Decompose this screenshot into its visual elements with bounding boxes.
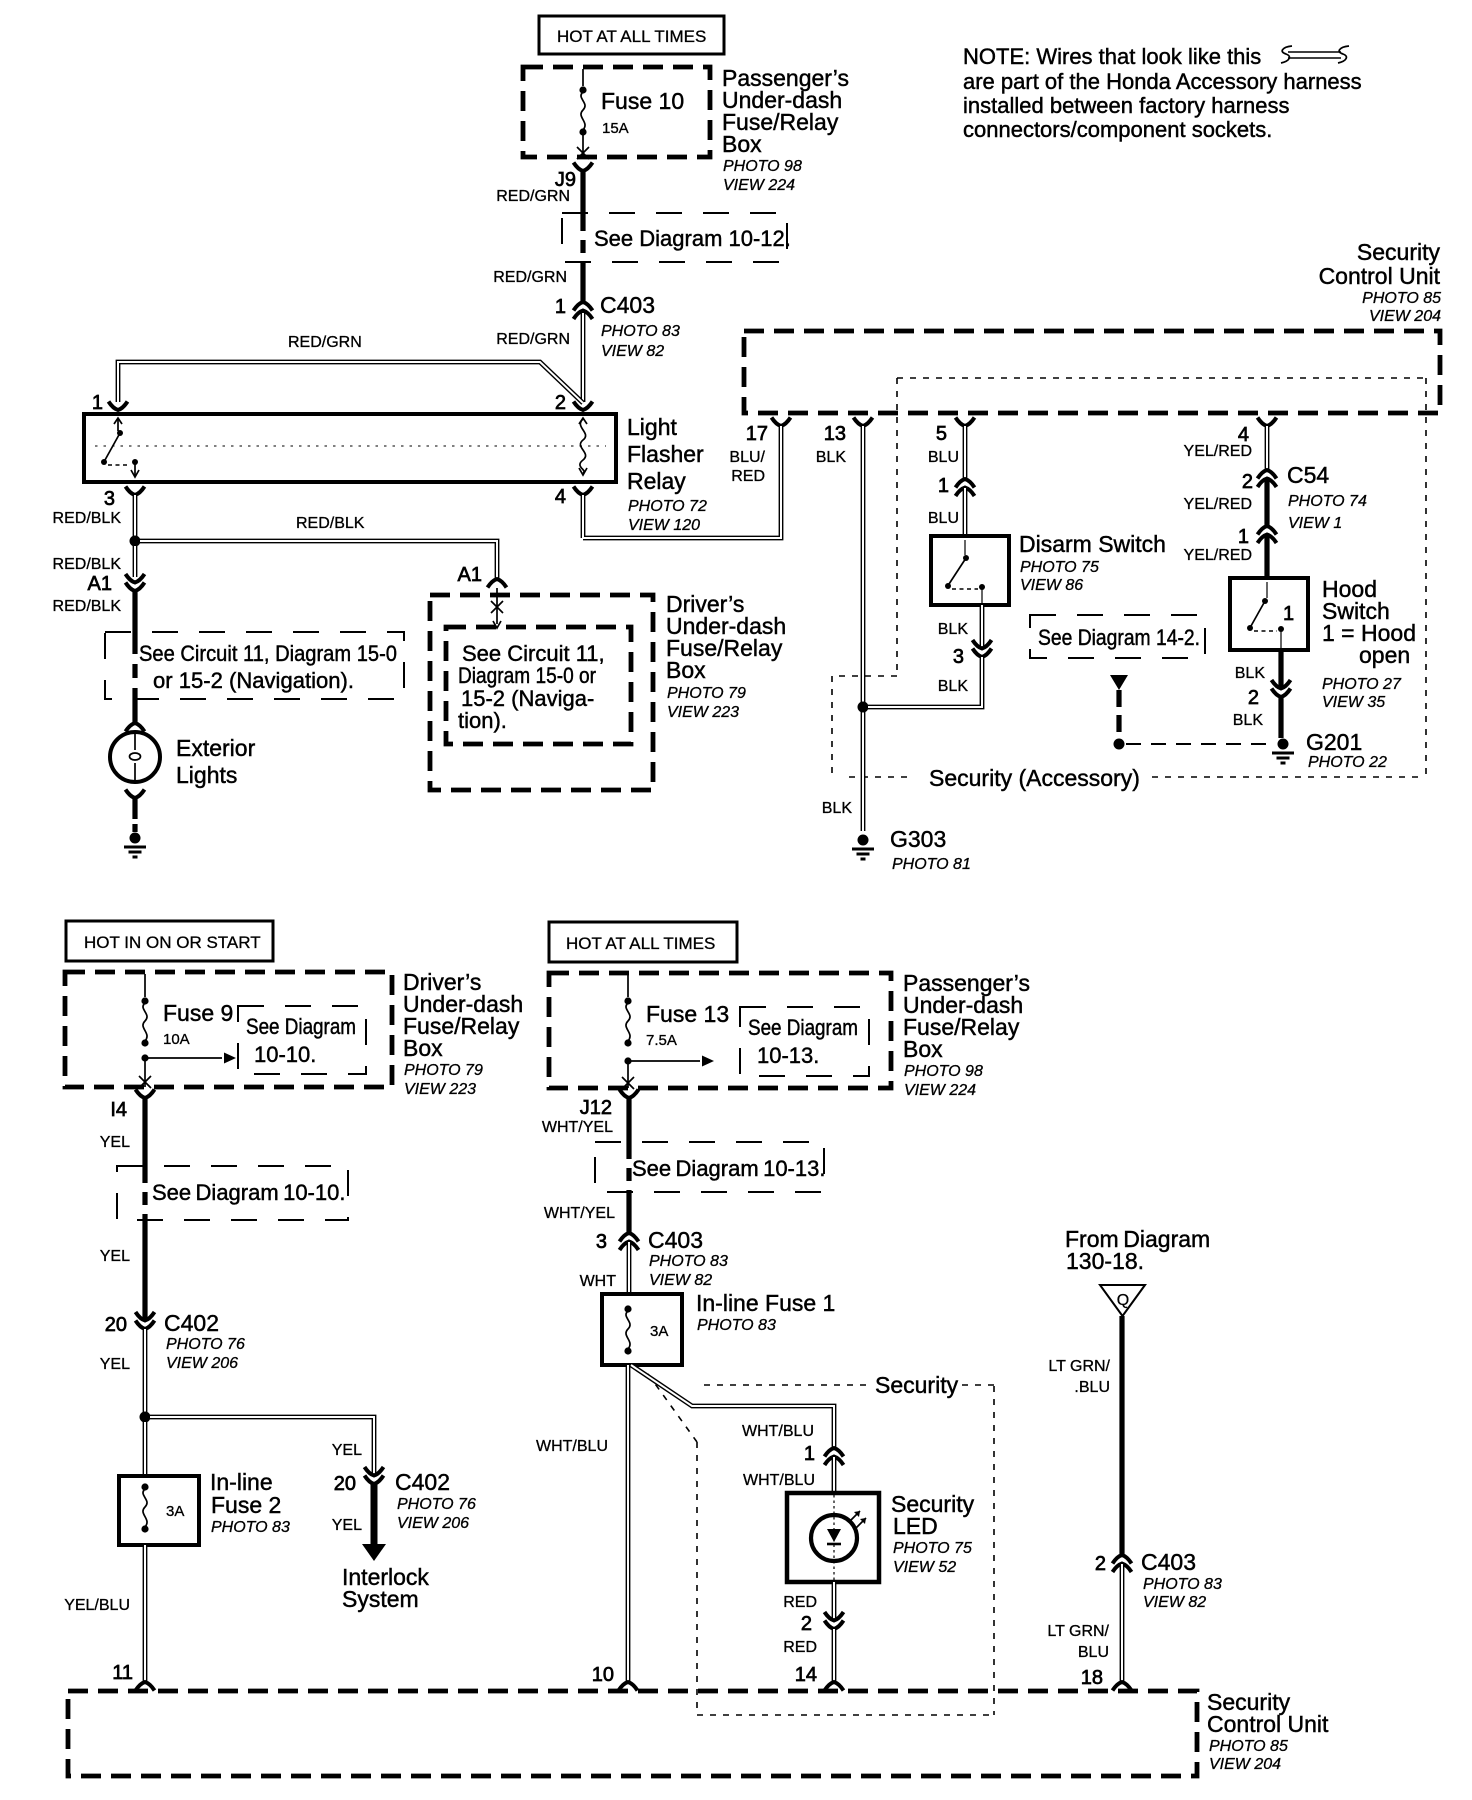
wire connector to disarm switch (double) [963,488,968,536]
connector C403 pin 3 PHOTO 83 VIEW 82 [596,1227,728,1289]
bulb socket connector (top) [126,723,145,732]
label Security Control Unit PHOTO 85 VIEW 204 (top right) [1319,239,1442,325]
svg-text:PHOTO 83: PHOTO 83 [1143,1576,1222,1593]
svg-text:RED/GRN: RED/GRN [496,188,570,205]
wire I4 YEL (thick) [142,1098,147,1170]
svg-text:VIEW 224: VIEW 224 [723,177,795,194]
svg-text:20: 20 [105,1314,127,1336]
power tag HOT AT ALL TIMES (top) [539,16,724,54]
svg-text:2: 2 [1095,1553,1106,1575]
svg-text:BLK: BLK [816,449,847,466]
svg-text:VIEW 86: VIEW 86 [1020,577,1083,594]
svg-text:YEL/RED: YEL/RED [1184,547,1252,564]
svg-text:YEL: YEL [100,1134,130,1151]
svg-text:WHT/YEL: WHT/YEL [544,1205,615,1222]
connector J12 [580,1090,639,1120]
bulb socket connector (bottom) [126,790,145,799]
svg-text:installed between factory harn: installed between factory harness [963,93,1290,118]
svg-text:VIEW 52: VIEW 52 [893,1559,956,1576]
svg-text:5: 5 [936,423,947,445]
svg-text:Disarm Switch: Disarm Switch [1019,531,1166,557]
svg-text:7.5A: 7.5A [646,1032,677,1049]
svg-text:RED: RED [731,468,765,485]
svg-text:BLU: BLU [928,510,959,527]
wire connector to LED (double) [832,1457,837,1493]
svg-text:J12: J12 [580,1097,612,1119]
svg-text:YEL: YEL [332,1442,362,1459]
wire C54 to connector 1 (thick) [1264,479,1269,526]
svg-text:Flasher: Flasher [627,441,704,467]
fuse Fuse 13 7.5A [624,997,729,1049]
svg-text:BLK: BLK [1235,665,1266,682]
label Security LED PHOTO 75 VIEW 52 [891,1491,975,1576]
svg-text:PHOTO 76: PHOTO 76 [397,1496,476,1513]
wire LED to connector 2 (double) [832,1582,837,1620]
wire to C403 (thick) [580,262,585,302]
wire fuse 1 to pin 10 (double) [626,1365,631,1682]
svg-text:C403: C403 [648,1227,703,1253]
dotted region Security (Accessory) boundary [832,378,1427,777]
label Driver's Under-dash Fuse/Relay Box PHOTO 79 VIEW 223 [403,969,523,1098]
svg-text:2: 2 [1248,687,1259,709]
border cross at exit [622,1077,634,1089]
connector 1 (disarm switch) [938,475,975,497]
svg-text:PHOTO 83: PHOTO 83 [601,323,680,340]
svg-text:PHOTO 79: PHOTO 79 [404,1062,483,1079]
connector A1 (left) [88,573,145,595]
svg-text:In-line Fuse 1: In-line Fuse 1 [696,1290,835,1316]
svg-text:PHOTO 75: PHOTO 75 [1020,559,1099,576]
wire pin17 to relay pin4 (double) [583,426,781,538]
relay coil (pins 2-4) [579,418,587,475]
svg-text:VIEW 204: VIEW 204 [1369,308,1441,325]
wire YEL branch to C402 pin 20 (double) [150,1417,374,1475]
svg-text:1: 1 [938,475,949,497]
svg-text:See Diagram 14-2.: See Diagram 14-2. [1038,625,1200,650]
dotted region Security boundary [648,1374,994,1715]
arrow fuse9 to see-diagram box [145,1053,236,1064]
wire pin5 to connector (double) [963,426,968,479]
fuse Fuse 9 10A [141,997,233,1048]
wire J9 RED/GRN (thick) [580,171,585,218]
svg-text:A1: A1 [458,564,482,586]
svg-text:3: 3 [104,488,115,510]
SCU pin 5 [936,418,975,446]
svg-text:10: 10 [592,1664,614,1686]
ground G201 PHOTO 22 [1272,729,1387,771]
wire relay pin3 to junction (double) [133,495,138,536]
LED Security LED box PHOTO 75 VIEW 52 [787,1493,879,1582]
junction node (RED/BLK split) [130,536,141,547]
power tag HOT AT ALL TIMES (lower) [549,922,737,962]
svg-text:PHOTO 85: PHOTO 85 [1362,290,1441,307]
svg-text:VIEW 206: VIEW 206 [397,1515,469,1532]
wire dashed through note box [626,1146,631,1190]
wire disarm to connector 3 (double) [980,605,985,648]
svg-text:LT GRN/: LT GRN/ [1047,1623,1109,1640]
SCU pin 14 [795,1664,844,1691]
svg-text:2: 2 [555,392,566,414]
svg-text:Relay: Relay [627,468,686,494]
note box See Diagram 14-2. [1030,615,1205,658]
Passenger's Under-dash Fuse/Relay Box (dashed, lower) [549,973,891,1088]
wire hood switch to connector 2 (thick) [1278,650,1283,688]
wire to bulb (thick) [132,698,137,723]
wire C403 to in-line fuse 1 (double) [627,1242,632,1294]
arrow fuse13 to see-diagram box [628,1056,714,1067]
svg-text:VIEW 206: VIEW 206 [166,1355,238,1372]
label LT GRN/BLU (lower) [1047,1623,1109,1661]
connector C402 pin 20 (branch) PHOTO 76 VIEW 206 [334,1467,476,1532]
wire to C402 (thick) [142,1218,147,1320]
SCU pin 18 [1081,1667,1132,1691]
svg-text:PHOTO 83: PHOTO 83 [211,1519,290,1536]
relay pin 3 [104,487,145,511]
svg-text:VIEW 120: VIEW 120 [628,517,700,534]
svg-text:Q: Q [1117,1292,1129,1309]
note box See Diagram 10-12 [562,213,791,262]
svg-text:PHOTO 72: PHOTO 72 [628,498,707,515]
wire RED/BLK branch to driver's box (double) [140,541,497,578]
fuse Fuse 10 15A [579,86,684,137]
svg-text:Fuse 2: Fuse 2 [211,1492,281,1518]
wire dashed through note box [132,640,137,698]
connector C402 pin 20 PHOTO 76 VIEW 206 [105,1310,245,1372]
fuse branch node [624,1057,631,1064]
svg-text:1: 1 [1283,603,1294,625]
relay pin 4 [555,486,593,508]
harness wire symbol in note [1281,46,1349,63]
label Security Control Unit PHOTO 85 VIEW 204 (bottom) [1207,1689,1329,1773]
switch Hood Switch box [1230,578,1308,650]
connector 2 (security LED) [801,1612,844,1635]
wire RED/GRN loop relay pin1 to pin2 (double) [118,362,583,403]
svg-text:Box: Box [722,131,762,157]
fuse branch node [141,1054,148,1061]
svg-text:PHOTO 83: PHOTO 83 [649,1253,728,1270]
wire (dashed through note box) [580,218,585,262]
connector I4 [110,1090,154,1122]
svg-text:WHT/BLU: WHT/BLU [536,1438,608,1455]
svg-text:10A: 10A [163,1031,190,1048]
Driver's Under-dash Fuse/Relay Box (dashed) [430,595,653,790]
svg-text:10-10.: 10-10. [254,1042,316,1067]
svg-text:RED/GRN: RED/GRN [288,334,362,351]
svg-text:Box: Box [903,1036,943,1062]
svg-text:RED/GRN: RED/GRN [496,331,570,348]
svg-text:PHOTO 79: PHOTO 79 [667,685,746,702]
note box See Diagram 10-13. [595,1142,825,1192]
SCU pin 11 [112,1662,154,1691]
svg-text:connectors/component sockets.: connectors/component sockets. [963,117,1272,142]
svg-text:Fuse 9: Fuse 9 [163,1000,233,1026]
ECU Security Control Unit box (dashed) [744,331,1440,413]
SCU pin 10 [592,1664,638,1691]
svg-text:Box: Box [403,1035,443,1061]
svg-text:C54: C54 [1287,462,1329,488]
svg-text:BLU/: BLU/ [729,449,765,466]
svg-text:WHT/BLU: WHT/BLU [742,1423,814,1440]
svg-text:3: 3 [953,646,964,668]
connector 3 (disarm switch) [953,640,992,668]
svg-text:2: 2 [1242,471,1253,493]
svg-text:HOT AT ALL TIMES: HOT AT ALL TIMES [566,934,715,953]
svg-text:130-18.: 130-18. [1066,1248,1144,1274]
svg-text:3: 3 [596,1231,607,1253]
svg-text:LT GRN/: LT GRN/ [1048,1358,1110,1375]
svg-text:VIEW 204: VIEW 204 [1209,1756,1281,1773]
wire dashed through note box [142,1170,147,1218]
svg-text:Light: Light [627,414,677,440]
svg-text:PHOTO 27: PHOTO 27 [1322,676,1402,693]
wire C403 to pin 18 (double) [1120,1564,1125,1682]
wire connector 2 to pin 14 (double) [832,1629,837,1682]
svg-text:PHOTO 74: PHOTO 74 [1288,493,1367,510]
junction node (YEL split) [140,1412,151,1423]
svg-text:See Diagram 10-12.: See Diagram 10-12. [594,226,791,251]
svg-text:18: 18 [1081,1667,1103,1689]
border cross at exit [139,1076,151,1088]
connector C54 pin 2 PHOTO 74 VIEW 1 [1242,462,1367,532]
svg-text:VIEW 1: VIEW 1 [1288,515,1342,532]
svg-text:3A: 3A [650,1323,668,1340]
label Passenger's Under-dash Fuse/Relay Box PHOTO 98 VIEW 224 [722,65,849,194]
off-page connector Q [1100,1285,1145,1316]
wire pin13 to G303 (double) [861,426,866,831]
wire C402 to junction (double) [143,1329,148,1412]
arrow to Interlock System [342,1484,429,1612]
SCU pin 13 [824,418,873,446]
svg-text:1: 1 [1238,526,1249,548]
svg-text:C402: C402 [395,1469,450,1495]
label From Diagram 130-18. [1065,1226,1210,1274]
svg-text:PHOTO 76: PHOTO 76 [166,1336,245,1353]
svg-text:RED/BLK: RED/BLK [53,598,122,615]
svg-text:C403: C403 [1141,1549,1196,1575]
svg-text:4: 4 [555,486,566,508]
label Hood Switch 1 = Hood open PHOTO 27 VIEW 35 [1322,576,1416,711]
svg-text:BLK: BLK [822,800,853,817]
svg-text:See Diagram: See Diagram [748,1015,858,1040]
relay switch contact (pins 1-3) [101,418,139,477]
wire to C403 (thick) [626,1190,631,1233]
svg-text:BLK: BLK [938,678,969,695]
switch Disarm Switch box [931,536,1009,605]
svg-text:LED: LED [893,1513,938,1539]
label LT GRN/BLU [1048,1358,1110,1396]
wire connector to hood switch (thick) [1264,535,1269,578]
svg-text:System: System [342,1586,419,1612]
svg-text:1: 1 [92,392,103,414]
svg-text:See Diagram 10-13.: See Diagram 10-13. [632,1156,825,1181]
svg-text:Security (Accessory): Security (Accessory) [929,765,1140,791]
note box See Circuit 11, Diagram 15-0 or 15-2 (Navigation). (inner) [446,627,631,744]
svg-text:15A: 15A [602,120,629,137]
svg-text:.BLU: .BLU [1074,1379,1110,1396]
note box See Circuit 11, Diagram 15-0 or 15-2 (Navigation). [105,632,404,699]
svg-text:Security: Security [875,1372,959,1398]
wire connector 2 to G201 (thick) [1278,697,1283,738]
svg-text:VIEW 224: VIEW 224 [904,1082,976,1099]
svg-text:NOTE: Wires that look like thi: NOTE: Wires that look like this [963,44,1261,69]
svg-text:BLK: BLK [1233,712,1264,729]
label BLU/RED [729,449,765,485]
wire fuse9 to box edge [144,1058,146,1087]
connector C403 pin 1 [555,292,680,360]
relay pin 2 [555,392,593,414]
svg-text:PHOTO 98: PHOTO 98 [904,1063,983,1080]
svg-text:Control Unit: Control Unit [1319,263,1441,289]
svg-text:RED/BLK: RED/BLK [53,556,122,573]
svg-text:RED: RED [783,1639,817,1656]
svg-text:are part of the Honda Accessor: are part of the Honda Accessory harness [963,69,1362,94]
label Passenger's Under-dash Fuse/Relay Box PHOTO 98 VIEW 224 [903,970,1030,1099]
relay K1 Light Flasher Relay box [84,414,616,482]
ground G (exterior lights) [124,833,146,858]
svg-text:1: 1 [804,1443,815,1465]
svg-text:BLU: BLU [928,449,959,466]
svg-text:WHT/BLU: WHT/BLU [743,1472,815,1489]
svg-text:1: 1 [555,296,566,318]
border cross at fuse box exit [577,147,589,159]
wire J12 WHT/YEL (thick) [626,1098,631,1146]
svg-text:PHOTO 81: PHOTO 81 [892,856,971,873]
connector 1 (security LED) [804,1443,844,1465]
dashed link wire (see diagram 14-2 to ground net) [1110,675,1276,750]
svg-text:WHT: WHT [580,1273,617,1290]
wire junction to in-line fuse 2 (double) [143,1422,148,1476]
connector 2 (hood switch) [1248,680,1291,709]
svg-text:Diagram 15-0 or: Diagram 15-0 or [458,663,596,688]
fuse F13 feed wire [627,975,629,997]
svg-text:Lights: Lights [176,762,237,788]
svg-text:VIEW 82: VIEW 82 [1143,1594,1206,1611]
connector A1 (driver's box branch) [458,564,507,588]
label Disarm Switch PHOTO 75 VIEW 86 [1019,531,1166,594]
svg-text:Security: Security [1357,239,1441,265]
wire A1 to exterior lights (thick) [132,591,137,640]
wire fuse13 to box edge [627,1061,629,1088]
connector C403 pin 2 PHOTO 83 VIEW 82 [1095,1549,1222,1611]
svg-text:PHOTO 98: PHOTO 98 [723,158,802,175]
svg-text:Fuse 10: Fuse 10 [601,88,684,114]
svg-text:VIEW 223: VIEW 223 [404,1081,476,1098]
svg-text:YEL/BLU: YEL/BLU [64,1597,130,1614]
svg-text:11: 11 [112,1662,133,1684]
wire connector 3 to BLK junction (double) [868,657,982,707]
fuse F9 feed wire [144,974,146,997]
svg-text:See Circuit 11, Diagram 15-0: See Circuit 11, Diagram 15-0 [139,641,397,666]
svg-text:YEL/RED: YEL/RED [1184,496,1252,513]
ground G303 PHOTO 81 [852,826,971,873]
svg-text:Control Unit: Control Unit [1207,1711,1329,1737]
svg-text:Exterior: Exterior [176,735,256,761]
svg-text:YEL: YEL [100,1356,130,1373]
svg-text:See Diagram 10-10.: See Diagram 10-10. [152,1180,345,1205]
svg-text:3A: 3A [166,1503,184,1520]
svg-text:Box: Box [666,657,706,683]
wire fuse10 to box edge [582,132,584,157]
svg-text:or 15-2 (Navigation).: or 15-2 (Navigation). [153,668,354,693]
fuse In-line Fuse 2 3A PHOTO 83 [119,1469,290,1545]
label BLU/RED (relay side) [0,0,1,1]
ECU Security Control Unit box (dashed, bottom) [68,1691,1197,1776]
svg-text:10-13.: 10-13. [757,1043,819,1068]
svg-text:YEL: YEL [100,1248,130,1265]
svg-text:YEL/RED: YEL/RED [1184,443,1252,460]
svg-text:G303: G303 [890,826,946,852]
lamp Exterior Lights [110,732,256,788]
Driver's Under-dash Fuse/Relay Box (dashed, lower) [65,972,392,1087]
svg-text:WHT/YEL: WHT/YEL [542,1119,613,1136]
note box See Diagram 10-10. (inner) [238,1006,366,1074]
wire stub into driver's box [491,588,503,628]
NOTE paragraph [963,44,1362,142]
svg-text:PHOTO 22: PHOTO 22 [1308,754,1387,771]
Passenger's Under-dash Fuse/Relay Box (top, dashed) [523,67,710,157]
svg-text:RED/GRN: RED/GRN [493,269,567,286]
svg-text:2: 2 [801,1613,812,1635]
wire bulb to ground (thick) [132,798,137,832]
svg-text:RED/BLK: RED/BLK [53,510,122,527]
fuse F10 feed wire [582,69,584,86]
svg-text:Fuse 13: Fuse 13 [646,1001,729,1027]
wire pin4 to C54 (double) [1265,426,1270,470]
svg-text:I4: I4 [110,1099,127,1121]
svg-text:RED: RED [783,1594,817,1611]
svg-text:BLU: BLU [1078,1644,1109,1661]
wire C403 to relay pin 2 (double) [581,311,586,402]
wire fuse 2 to pin 11 (double) [143,1545,148,1682]
svg-text:C403: C403 [600,292,655,318]
svg-text:13: 13 [824,423,846,445]
svg-text:17: 17 [746,423,768,445]
svg-text:VIEW 223: VIEW 223 [667,704,739,721]
fuse In-line Fuse 1 3A PHOTO 83 [602,1290,835,1365]
note box See Diagram 10-13. (inner) [740,1007,869,1076]
label Light Flasher Relay PHOTO 72 VIEW 120 [627,414,707,534]
svg-text:C402: C402 [164,1310,219,1336]
svg-text:open: open [1359,642,1410,668]
svg-text:14: 14 [795,1664,817,1686]
note box See Diagram 10-10. [117,1166,348,1220]
SCU pin 17 [746,418,791,446]
svg-text:VIEW 82: VIEW 82 [601,343,664,360]
label Driver's Under-dash Fuse/Relay Box PHOTO 79 VIEW 223 [666,591,786,721]
svg-text:PHOTO 75: PHOTO 75 [893,1540,972,1557]
svg-text:YEL: YEL [332,1517,362,1534]
connector J9 [555,163,593,192]
svg-text:BLK: BLK [938,621,969,638]
wire branch fuse 1 to security LED (double) [631,1365,834,1448]
svg-text:tion).: tion). [458,708,507,733]
svg-text:RED/BLK: RED/BLK [296,515,365,532]
SCU pin 4 [1238,418,1277,447]
wire junction to A1 connector (double) [133,546,138,577]
svg-text:VIEW 35: VIEW 35 [1322,694,1385,711]
svg-text:HOT IN ON OR START: HOT IN ON OR START [84,933,261,952]
power tag HOT IN ON OR START [66,921,273,961]
svg-text:PHOTO 83: PHOTO 83 [697,1317,776,1334]
junction node (BLK join) [858,702,869,713]
connector 1 (hood switch) [1238,526,1277,548]
svg-text:HOT AT ALL TIMES: HOT AT ALL TIMES [557,27,706,46]
relay pin 1 [92,392,128,414]
svg-text:G201: G201 [1306,729,1362,755]
svg-text:See Diagram: See Diagram [246,1014,356,1039]
svg-text:A1: A1 [88,573,112,595]
svg-text:VIEW 82: VIEW 82 [649,1272,712,1289]
